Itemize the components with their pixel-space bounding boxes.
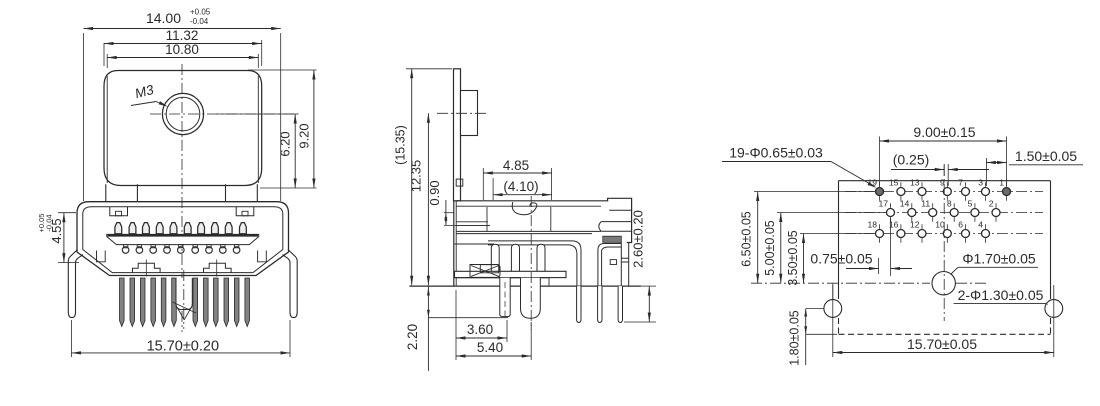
svg-text:(4.10): (4.10) [503, 179, 538, 194]
terminal crimp block [603, 236, 622, 242]
svg-text:3: 3 [978, 177, 983, 187]
dimension 1.50±0.05 [986, 148, 1083, 186]
pad pin 12 [910, 219, 926, 243]
dimension 6.20 [278, 114, 297, 188]
row centerlines [845, 192, 1043, 234]
svg-text:3.50±0.05: 3.50±0.05 [786, 230, 800, 286]
svg-text:13: 13 [910, 177, 920, 187]
left mounting leg [68, 250, 83, 318]
round plastic post and centerline [521, 196, 541, 330]
right corner hole Φ1.30 [1045, 300, 1063, 318]
dimension 6.50±0.05 [740, 192, 874, 284]
dimension 15.70±0.20 [72, 320, 291, 357]
svg-text:15.70±0.05: 15.70±0.05 [907, 336, 977, 352]
svg-text:15: 15 [889, 177, 899, 187]
svg-text:-0.04: -0.04 [45, 214, 54, 231]
shell inner wall outline [83, 207, 283, 273]
dimension 5.40 [456, 322, 531, 360]
through-hole pin tail 3 [618, 286, 622, 322]
svg-text:11: 11 [921, 198, 930, 208]
tongue slot lines [456, 222, 490, 226]
plate inner bend lines [107, 76, 258, 183]
dimension (4.10) [493, 178, 551, 200]
label 19-Φ0.65±0.03 with leader [722, 145, 877, 189]
svg-text:3.60: 3.60 [467, 322, 493, 337]
right latch tab [236, 207, 254, 216]
svg-text:0.90: 0.90 [427, 180, 442, 205]
dimension 0.90 [427, 180, 490, 225]
svg-text:2.20: 2.20 [405, 324, 420, 350]
plate lower tab side view [456, 179, 463, 186]
lower contact row (9 solder dots) [122, 245, 240, 254]
M3 boss side profile [461, 91, 478, 136]
svg-text:1.80±0.05: 1.80±0.05 [788, 310, 802, 366]
through pin body 1 [491, 244, 499, 278]
extension lines for 6.20 / 9.20 [216, 70, 317, 188]
plate left bottom tab [106, 184, 138, 201]
pad pin 11 [921, 198, 936, 222]
PCB outline rectangle [839, 181, 1051, 335]
bracket plate side profile [454, 69, 461, 201]
rear clip / pin 3 [621, 243, 628, 287]
boss centerline [437, 112, 486, 114]
base line under body [455, 278, 550, 286]
pad pin 14 [900, 198, 916, 222]
PCB top surface line [409, 285, 641, 287]
dimension (15.35) [394, 69, 453, 285]
svg-text:12.35: 12.35 [409, 160, 424, 193]
svg-text:6: 6 [958, 219, 963, 229]
left latch tab [110, 207, 128, 216]
svg-text:4: 4 [978, 219, 983, 229]
dimension 3.50±0.05 [786, 230, 874, 286]
dimension 14.00 +0.05/-0.04 [84, 8, 281, 202]
right side wall tab [258, 251, 267, 262]
solder peg (thin) [500, 278, 510, 320]
svg-text:2.60±0.20: 2.60±0.20 [630, 210, 645, 268]
wafer flange lines [455, 231, 602, 244]
upper contact row (10 pins) [115, 223, 246, 234]
svg-text:-0.04: -0.04 [190, 17, 209, 26]
pad pin 10 [935, 219, 951, 243]
dimension 10.80 [107, 42, 258, 68]
dimension 2.20 [405, 286, 508, 371]
right mounting leg [283, 250, 298, 318]
shell outer outline [77, 202, 289, 276]
dimension 2.60±0.20 [624, 210, 656, 322]
svg-text:7: 7 [958, 177, 963, 187]
pad pin 5 [968, 198, 979, 222]
through-hole pin tail 1 [577, 286, 581, 322]
pad pin 1 [999, 177, 1010, 201]
svg-text:1: 1 [999, 177, 1004, 187]
dimension 9.00±0.15 [880, 124, 1007, 186]
right view: PCB layout footprint [722, 124, 1083, 366]
left side wall tab [97, 251, 106, 262]
left corner hole Φ1.30 [824, 300, 842, 318]
pad pin 2 [989, 198, 1000, 222]
solder clip box [480, 265, 498, 273]
pad pin 6 [958, 219, 969, 243]
svg-text:10: 10 [935, 219, 945, 229]
M3 label and leader [131, 82, 168, 107]
pad pin 4 [978, 219, 989, 243]
svg-text:18: 18 [867, 219, 877, 229]
dimension 5.00±0.05 [763, 213, 885, 284]
pad pin 19 [867, 177, 883, 201]
dimension (0.25) [891, 152, 989, 187]
through pin body 2 [511, 244, 519, 278]
dimension 4.55 +0.05/-0.04 [37, 213, 79, 263]
dimension 11.32 [104, 28, 262, 66]
svg-text:14.00: 14.00 [146, 10, 181, 26]
svg-text:2: 2 [989, 198, 994, 208]
label Φ1.70±0.05 with leader [951, 251, 1039, 275]
pad pin 13 [910, 177, 926, 201]
svg-text:10.80: 10.80 [165, 42, 199, 57]
pad pin 3 [978, 177, 989, 201]
svg-text:5.00±0.05: 5.00±0.05 [763, 220, 777, 276]
through-hole pin tail 2 [598, 286, 602, 322]
tongue shelf trapezoid [107, 234, 259, 244]
center hole Φ1.70 and vertical centerline [932, 165, 955, 321]
dimension 15.70±0.05 [833, 285, 1054, 357]
svg-text:5.40: 5.40 [477, 340, 503, 355]
svg-text:11.32: 11.32 [166, 28, 199, 43]
svg-text:5: 5 [968, 198, 973, 208]
pad pin 15 [889, 177, 905, 201]
body inner top line [456, 205, 601, 207]
dimension 3.60 [456, 290, 507, 360]
svg-text:9.00±0.15: 9.00±0.15 [913, 124, 975, 140]
vertical centerline of front view [181, 64, 183, 332]
svg-text:1.50±0.05: 1.50±0.05 [1015, 148, 1077, 164]
svg-text:Φ1.70±0.05: Φ1.70±0.05 [962, 251, 1036, 267]
pad pin 17 [878, 198, 894, 222]
left view: HDMI connector front view [37, 8, 317, 358]
pad pin 9 [940, 177, 951, 201]
shell bottom foot bar [455, 271, 567, 277]
dimension 1.80±0.05 [788, 283, 837, 366]
through pin body 3 [537, 244, 545, 278]
hold-down clip with cross [470, 265, 500, 278]
label 2-Φ1.30±0.05 with leader [954, 287, 1048, 305]
dimension 12.35 [409, 113, 431, 285]
pad pin 18 [867, 219, 883, 243]
body top and front edges [454, 198, 632, 286]
hole horizontal centerline reference [751, 282, 987, 284]
right bottom bump [204, 260, 232, 277]
svg-text:19-Φ0.65±0.03: 19-Φ0.65±0.03 [729, 145, 823, 161]
mounting plate bracket outline [104, 71, 262, 186]
dimension 0.75±0.05 [810, 218, 912, 276]
hole horizontal centerline / 6.20 extension [150, 113, 298, 115]
M3 screw hole circles [162, 93, 203, 134]
center solder tab with funnel [173, 270, 197, 329]
svg-text:15.70±0.20: 15.70±0.20 [147, 339, 219, 355]
svg-text:6.50±0.05: 6.50±0.05 [740, 211, 754, 267]
svg-text:+0.05: +0.05 [190, 8, 211, 17]
svg-text:12: 12 [910, 219, 920, 229]
dimension 4.85 [483, 158, 551, 200]
svg-text:0.75±0.05: 0.75±0.05 [810, 251, 872, 267]
top latch bump and pocket lines [487, 202, 551, 231]
svg-text:(0.25): (0.25) [893, 152, 930, 168]
middle view: HDMI connector side view [394, 69, 657, 371]
svg-text:6.20: 6.20 [278, 131, 293, 156]
lower solder comb pins (12) [120, 278, 250, 327]
bent terminal to rear pin 1 [488, 241, 581, 286]
svg-text:9.20: 9.20 [297, 123, 312, 148]
svg-text:17: 17 [878, 198, 888, 208]
pad pin 8 [947, 198, 958, 222]
dimension 9.20 [297, 70, 316, 188]
pad pin 7 [958, 177, 969, 201]
svg-text:4.85: 4.85 [503, 158, 529, 173]
svg-text:(15.35): (15.35) [394, 125, 408, 165]
rear pin 2 vertical [598, 244, 621, 287]
pad pin 16 [889, 219, 905, 243]
svg-text:2-Φ1.30±0.05: 2-Φ1.30±0.05 [958, 287, 1044, 303]
svg-text:8: 8 [947, 198, 952, 208]
clip detent [610, 260, 616, 265]
svg-text:14: 14 [900, 198, 910, 208]
plate right bottom tab [226, 184, 258, 201]
right slot tab [599, 210, 632, 231]
left bottom bump [133, 260, 161, 277]
